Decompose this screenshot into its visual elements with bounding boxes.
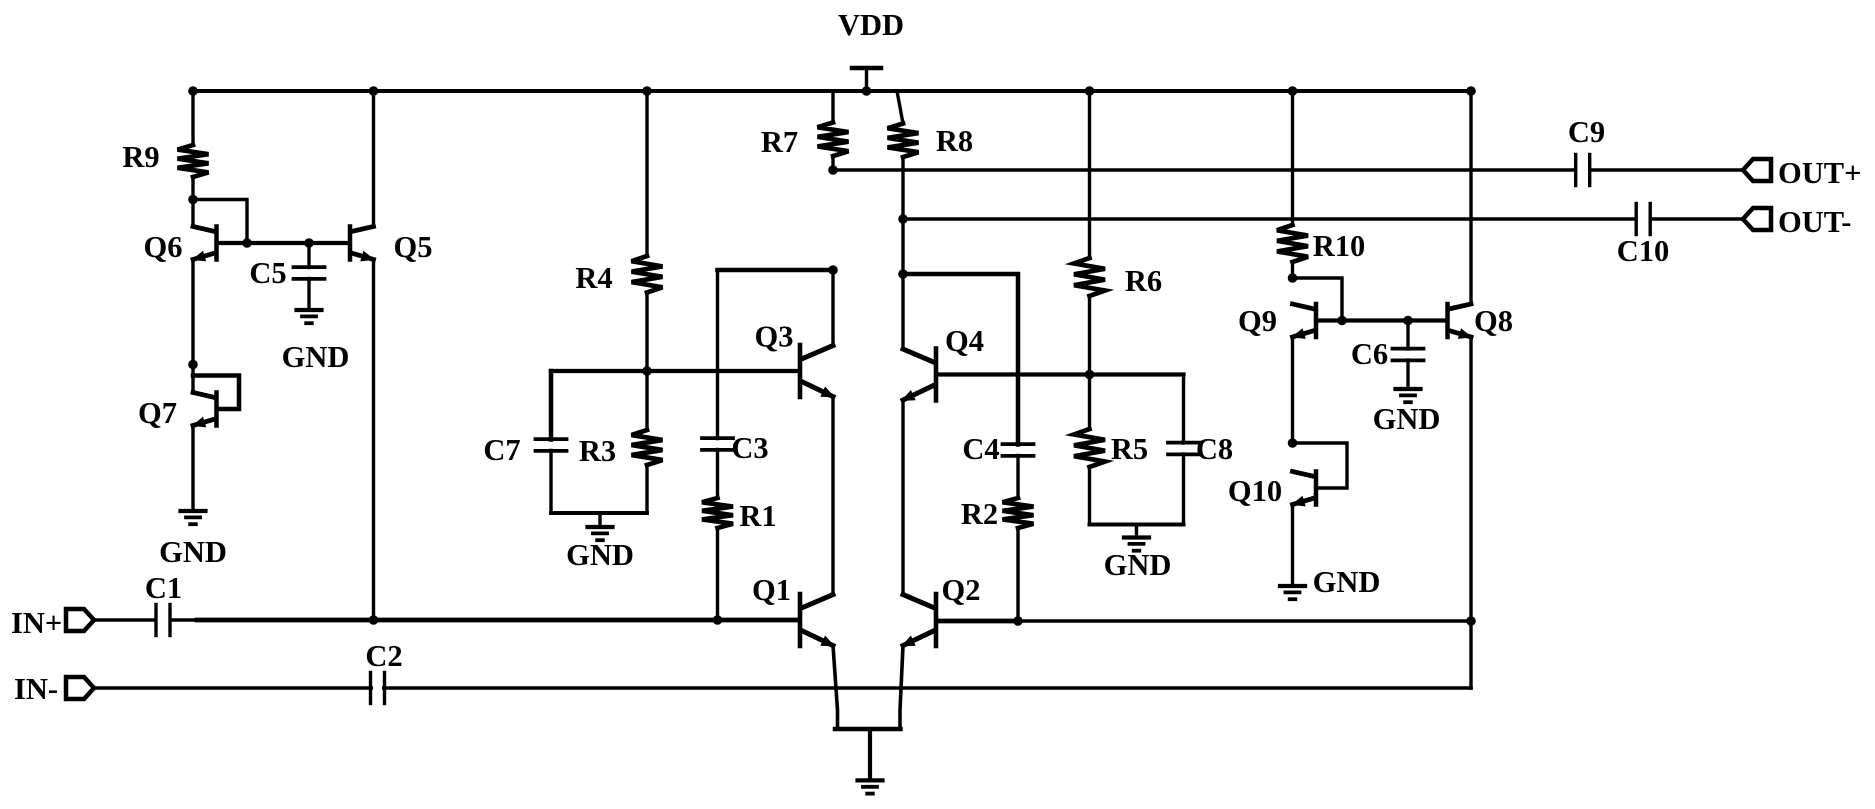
svg-text:C7: C7 — [483, 433, 520, 467]
svg-text:R4: R4 — [575, 261, 612, 295]
svg-text:Q6: Q6 — [144, 230, 183, 264]
svg-text:OUT-: OUT- — [1778, 205, 1851, 239]
svg-text:R10: R10 — [1313, 229, 1366, 263]
svg-text:R8: R8 — [936, 124, 973, 158]
svg-text:Q2: Q2 — [942, 573, 981, 607]
svg-text:R2: R2 — [961, 497, 998, 531]
svg-text:R9: R9 — [122, 140, 159, 174]
svg-text:Q4: Q4 — [945, 324, 984, 358]
svg-text:C5: C5 — [249, 256, 286, 290]
svg-text:R3: R3 — [579, 434, 616, 468]
svg-text:R1: R1 — [739, 499, 776, 533]
svg-text:Q10: Q10 — [1228, 474, 1282, 508]
svg-text:R6: R6 — [1125, 264, 1162, 298]
svg-text:IN-: IN- — [14, 672, 58, 706]
svg-text:C8: C8 — [1196, 432, 1233, 466]
svg-text:GND: GND — [1104, 548, 1172, 582]
svg-text:R7: R7 — [761, 125, 798, 159]
svg-text:C2: C2 — [365, 639, 402, 673]
svg-text:C9: C9 — [1568, 115, 1605, 149]
svg-text:GND: GND — [566, 538, 634, 572]
svg-text:C4: C4 — [962, 432, 999, 466]
svg-text:GND: GND — [1313, 565, 1381, 599]
svg-text:R5: R5 — [1111, 432, 1148, 466]
svg-text:C1: C1 — [145, 571, 182, 605]
svg-text:Q1: Q1 — [752, 573, 791, 607]
svg-text:Q5: Q5 — [394, 230, 433, 264]
svg-text:Q7: Q7 — [138, 396, 177, 430]
svg-text:Q9: Q9 — [1238, 304, 1277, 338]
svg-text:Q3: Q3 — [755, 320, 794, 354]
svg-text:VDD: VDD — [838, 8, 904, 42]
svg-text:GND: GND — [282, 340, 350, 374]
svg-text:Q8: Q8 — [1474, 304, 1513, 338]
svg-text:IN+: IN+ — [11, 606, 62, 640]
svg-text:C10: C10 — [1617, 234, 1670, 268]
svg-text:GND: GND — [159, 535, 227, 569]
svg-text:GND: GND — [1373, 402, 1441, 436]
svg-text:OUT+: OUT+ — [1778, 156, 1861, 190]
svg-text:C6: C6 — [1351, 337, 1388, 371]
svg-text:C3: C3 — [731, 431, 768, 465]
